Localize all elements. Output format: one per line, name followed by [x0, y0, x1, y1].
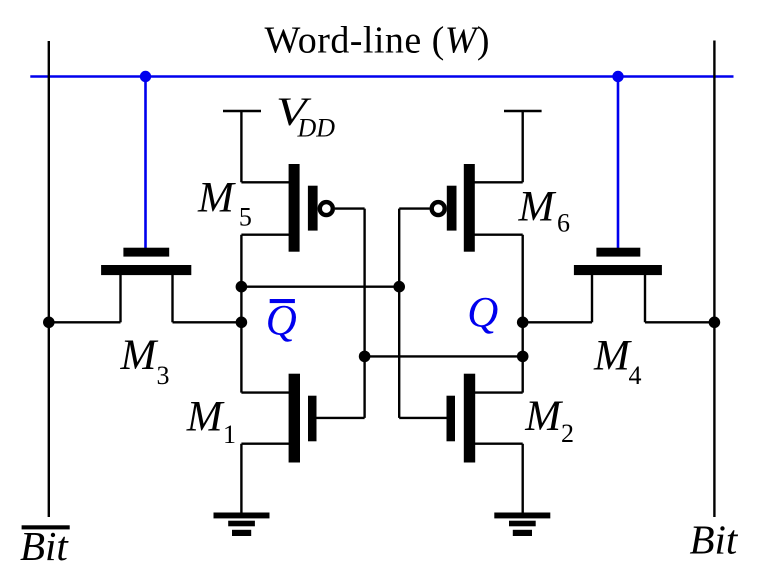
svg-text:M: M [593, 332, 632, 379]
svg-text:Q: Q [467, 290, 498, 337]
label M2 [524, 393, 574, 448]
node: junction dot bit-bar / M3 source [43, 317, 55, 329]
wire: blue drop from word line to M4 gate [617, 77, 620, 249]
svg-text:4: 4 [629, 361, 642, 390]
svg-text:Q: Q [266, 297, 297, 344]
wire: right inverter output vertical (node Q) [522, 235, 524, 393]
svg-text:M: M [518, 184, 557, 231]
node: junction dot on right gate line [393, 281, 405, 293]
label M4 [593, 332, 642, 390]
svg-text:Word-line (W): Word-line (W) [265, 20, 490, 62]
node: junction dot on left gate line [359, 351, 371, 363]
wire: upper cross-coupling (Qbar to gates of M6/M2) [241, 286, 399, 288]
wire: left inverter output vertical (node Qbar) [240, 235, 242, 393]
svg-text:M: M [197, 175, 236, 222]
ground (left) [214, 513, 270, 537]
wire: M2 source to ground [522, 444, 524, 513]
svg-text:2: 2 [561, 419, 574, 448]
label: Q (blue) [467, 290, 498, 337]
node: junction dot Q lower [517, 351, 529, 363]
wire: M1 source to ground [240, 444, 242, 513]
wire: left bit line (Bit-bar vertical) [48, 41, 50, 517]
transistor M4 (NMOS access, right) [523, 248, 715, 323]
transistor M6 (PMOS, right pull-up) [399, 164, 523, 252]
ground (right) [494, 513, 550, 537]
wire: right bit line (Bit vertical) [713, 41, 715, 518]
transistor M2 (NMOS, right pull-down) [399, 374, 523, 463]
node: junction dot Q / M4 source [517, 317, 529, 329]
node: word-line tap left (blue junction dot) [140, 71, 151, 82]
label: Qbar (blue) [266, 297, 297, 344]
node: junction dot bit / M4 drain [709, 317, 721, 329]
svg-text:DD: DD [297, 114, 336, 143]
transistor M5 (PMOS, left pull-up) [241, 164, 364, 252]
label M3 [120, 332, 170, 390]
wire: left gate vertical (M5/M1 gates) [363, 209, 365, 418]
label: Bit-bar (bottom left) [20, 523, 70, 569]
power VDD left: T-bar symbol [223, 111, 261, 182]
transistor M3 (NMOS access, left) [49, 248, 242, 323]
label M1 [186, 394, 236, 449]
label: Bit (bottom right) [690, 516, 739, 562]
svg-text:M: M [120, 332, 159, 379]
wire: right gate vertical (M6/M2 gates) [398, 209, 400, 418]
node: junction dot Qbar / M3 drain [236, 317, 248, 329]
wire: lower cross-coupling (Q to gates of M5/M1) [365, 355, 523, 357]
node: junction dot Qbar upper [236, 281, 248, 293]
svg-text:5: 5 [239, 203, 252, 232]
svg-text:M: M [524, 393, 563, 440]
svg-text:1: 1 [223, 420, 236, 449]
transistor M1 (NMOS, left pull-down) [241, 374, 364, 463]
svg-text:Bit: Bit [690, 516, 739, 562]
svg-text:6: 6 [557, 209, 570, 238]
label: VDD [276, 89, 335, 142]
node: word-line tap right (blue junction dot) [612, 71, 623, 82]
svg-text:3: 3 [157, 361, 170, 390]
svg-text:M: M [186, 394, 225, 441]
label: Word-line (W) [265, 20, 490, 62]
wire: blue drop from word line to M3 gate [144, 77, 147, 249]
svg-text:Bit: Bit [20, 523, 69, 569]
label M5 [197, 175, 252, 232]
wire: word line W (blue horizontal) [30, 75, 733, 78]
label M6 [518, 184, 571, 238]
power VDD right: T-bar symbol [504, 111, 542, 182]
